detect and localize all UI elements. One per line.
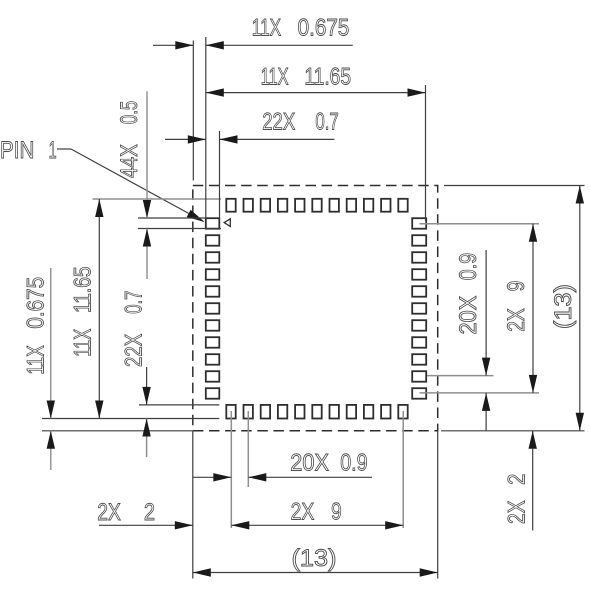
svg-text:20X: 20X <box>455 296 482 335</box>
svg-text:0.675: 0.675 <box>23 277 50 329</box>
dimension 2X 2 (right) arrowhead <box>529 431 537 449</box>
pad T1 (top row) <box>226 199 235 212</box>
dimension 20X 0.9 (right) upper leg <box>485 250 487 376</box>
pad T3 (top row) <box>261 199 270 212</box>
extension line, pin1 pad right edge (top) <box>219 131 221 218</box>
extension line, right pad R10 center <box>427 375 494 377</box>
pad R2 (right column) <box>412 235 426 246</box>
dimension 20X 0.9 (bottom) right leg <box>248 476 372 478</box>
pad L7 (left column) <box>206 320 220 331</box>
dimension 22X 0.7 (left) lower leg <box>146 419 148 458</box>
pad T11 (top row) <box>398 199 407 212</box>
svg-text:2: 2 <box>144 499 155 526</box>
pad L3 (left column) <box>206 252 220 263</box>
extension line, pin1 pad top edge <box>138 217 206 219</box>
svg-text:11.65: 11.65 <box>70 266 97 313</box>
extension line, outline left edge (top) <box>192 41 194 181</box>
extension line, right pad column right edge (top) <box>425 85 427 221</box>
dimension (13) (bottom) left arrowhead <box>193 568 211 576</box>
package body outline (13x13, dashed) <box>193 186 438 431</box>
svg-text:0.7: 0.7 <box>121 291 148 314</box>
pad T2 (top row) <box>244 199 253 212</box>
extension line, top pad row top edge (left) <box>93 198 222 200</box>
pad L10 (left column) <box>206 371 220 382</box>
pad T5 (top row) <box>295 199 304 212</box>
dimension 2X 2 (bottom) arrowhead <box>175 521 193 529</box>
svg-text:PIN: PIN <box>0 137 34 164</box>
pad B9 (bottom row) <box>364 405 373 419</box>
svg-text:22X: 22X <box>121 334 148 367</box>
leader line PIN 1 diagonal <box>71 149 204 222</box>
dimension 11X 0.675 (top) left arrowhead <box>175 41 193 49</box>
dimension 44X 0.5 upper arrowhead <box>143 200 151 218</box>
pad L5 (left column) <box>206 286 220 297</box>
dimension 2X 9 (bottom) right arrowhead <box>385 521 403 529</box>
extension line, outline bottom edge (left) <box>42 430 193 432</box>
dimension (13) (bottom) right arrowhead <box>420 568 438 576</box>
svg-text:0.675: 0.675 <box>298 15 350 42</box>
pad R5 (right column) <box>412 286 426 297</box>
extension line, outline left edge (bottom) <box>192 431 194 579</box>
dimension (13) (right) top arrowhead <box>576 186 584 204</box>
pad B11 (bottom row) <box>398 405 407 419</box>
extension line, pin1 pad bottom edge <box>138 228 221 230</box>
svg-text:0.9: 0.9 <box>455 253 482 280</box>
extension line, outline right edge (bottom) <box>437 431 439 579</box>
svg-text:2X: 2X <box>97 499 121 526</box>
extension line, bottom pad B1 center <box>230 411 232 528</box>
extension line, bottom pad row bottom edge (left) <box>42 418 219 420</box>
svg-text:2X: 2X <box>291 499 315 526</box>
svg-text:11.65: 11.65 <box>304 64 351 91</box>
pad L6 (left column) <box>206 303 220 314</box>
pad L1 (left column) <box>206 218 220 229</box>
pad T7 (top row) <box>330 199 339 212</box>
dimension 22X 0.7 (left) upper arrowhead <box>142 387 150 405</box>
pad B8 (bottom row) <box>347 405 356 419</box>
dimension 22X 0.7 (top) left leg <box>165 138 206 140</box>
pad B3 (bottom row) <box>261 405 270 419</box>
pad T8 (top row) <box>347 199 356 212</box>
pad R4 (right column) <box>412 269 426 280</box>
dimension 2X 9 (right) bottom arrowhead <box>529 375 537 393</box>
pad L11 (left column) <box>206 388 220 399</box>
pad R11 (right column) <box>412 388 426 399</box>
dimension 2X 2 (right) leg <box>532 431 534 531</box>
extension line, outline bottom edge (right) <box>441 430 585 432</box>
dimension 2X 9 (right) top arrowhead <box>529 224 537 242</box>
pad T4 (top row) <box>278 199 287 212</box>
extension line, bottom pad B11 center <box>402 411 404 528</box>
dimension 20X 0.9 (right) lower leg <box>485 393 487 431</box>
pad R3 (right column) <box>412 252 426 263</box>
svg-text:0.5: 0.5 <box>116 101 143 124</box>
dimension 44X 0.5 lower leg <box>146 229 148 280</box>
svg-text:2X: 2X <box>503 308 530 332</box>
dimension 44X 0.5 upper leg <box>146 91 148 218</box>
dimension 2X 2 (bottom) leg <box>99 524 193 526</box>
dimension 22X 0.7 (top) right arrowhead <box>220 135 238 143</box>
pad R6 (right column) <box>412 303 426 314</box>
svg-text:20X: 20X <box>290 450 329 477</box>
pad T9 (top row) <box>364 199 373 212</box>
extension line, bottom pad B2 center <box>247 411 249 487</box>
extension line, outline top edge (right) <box>444 185 585 187</box>
dimension 11X 0.675 (left) lower arrowhead <box>47 431 55 449</box>
pad B2 (bottom row) <box>244 405 253 419</box>
svg-text:11X: 11X <box>252 15 281 42</box>
dimension (13) (bottom) line <box>193 572 438 574</box>
svg-text:11X: 11X <box>261 64 289 91</box>
pad B1 (bottom row) <box>226 405 235 419</box>
dimension 44X 0.5 lower arrowhead <box>143 229 151 247</box>
pad B7 (bottom row) <box>330 405 339 419</box>
dimension 22X 0.7 (left) lower arrowhead <box>142 419 150 437</box>
pad R8 (right column) <box>412 337 426 348</box>
pad R10 (right column) <box>412 371 426 382</box>
svg-text:2: 2 <box>504 474 531 485</box>
svg-text:11X: 11X <box>23 345 50 374</box>
svg-text:9: 9 <box>503 281 530 292</box>
dimension 2X 9 (bottom) left arrowhead <box>231 521 249 529</box>
extension line, right pad R11 center <box>420 392 540 394</box>
pad T10 (top row) <box>381 199 390 212</box>
dimension 20X 0.9 (bottom) left arrowhead <box>213 473 231 481</box>
extension line, right pad R1 center <box>420 223 540 225</box>
extension line, bottom pad row top edge (left) <box>139 404 219 406</box>
pad L2 (left column) <box>206 235 220 246</box>
svg-text:11X: 11X <box>70 329 97 357</box>
dimension 20X 0.9 (right) lower arrowhead <box>482 393 490 411</box>
pad R9 (right column) <box>412 354 426 365</box>
svg-text:0.7: 0.7 <box>315 109 338 136</box>
dimension (13) (right) line <box>579 186 581 431</box>
dimension 11X 11.65 (top) line <box>206 92 426 94</box>
pad B10 (bottom row) <box>381 405 390 419</box>
dimension 11X 11.65 (left) top arrowhead <box>95 199 103 217</box>
pad B6 (bottom row) <box>312 405 321 419</box>
svg-text:(13): (13) <box>292 545 337 572</box>
svg-text:1: 1 <box>49 137 57 164</box>
dimension 11X 0.675 (left) lower leg <box>50 431 52 470</box>
dimension 22X 0.7 (top) right leg <box>220 138 335 140</box>
extension line, pad column left edge (top) <box>205 37 207 218</box>
dimension 11X 0.675 (top) right arrowhead <box>206 41 224 49</box>
pad L4 (left column) <box>206 269 220 280</box>
dimension 20X 0.9 (right) upper arrowhead <box>482 358 490 376</box>
pad B5 (bottom row) <box>295 405 304 419</box>
pad L9 (left column) <box>206 354 220 365</box>
dimension 11X 0.675 (left) upper leg <box>50 268 52 419</box>
dimension (13) (right) bottom arrowhead <box>576 413 584 431</box>
dimension 11X 0.675 (top) right leg <box>206 44 353 46</box>
dimension 11X 0.675 (left) upper arrowhead <box>47 401 55 419</box>
dimension 2X 9 (bottom) line <box>231 524 403 526</box>
svg-text:44X: 44X <box>116 144 143 178</box>
dimension 20X 0.9 (bottom) left leg <box>192 476 231 478</box>
dimension 22X 0.7 (top) left arrowhead <box>188 135 206 143</box>
pad B4 (bottom row) <box>278 405 287 419</box>
dimension 11X 11.65 (left) line <box>98 199 100 419</box>
pad R1 (right column) <box>412 218 426 229</box>
pin 1 marker triangle <box>224 219 230 227</box>
dimension 11X 0.675 (top) left leg <box>153 44 193 46</box>
svg-text:2X: 2X <box>504 500 531 524</box>
dimension 20X 0.9 (bottom) right arrowhead <box>248 473 266 481</box>
dimension 22X 0.7 (left) upper leg <box>146 367 148 405</box>
pad T6 (top row) <box>312 199 321 212</box>
dimension 11X 11.65 (left) bottom arrowhead <box>95 401 103 419</box>
leader line PIN 1 horizontal <box>57 148 71 150</box>
dimension 11X 11.65 (top) right arrowhead <box>408 88 426 96</box>
svg-text:9: 9 <box>331 499 342 526</box>
svg-text:(13): (13) <box>550 284 577 329</box>
dimension 2X 9 (right) line <box>532 224 534 393</box>
svg-text:0.9: 0.9 <box>340 450 367 477</box>
pad R7 (right column) <box>412 320 426 331</box>
svg-text:22X: 22X <box>262 109 295 136</box>
leader arrowhead at pin 1 pad <box>187 210 205 222</box>
pad L8 (left column) <box>206 337 220 348</box>
dimension 11X 11.65 (top) left arrowhead <box>206 88 224 96</box>
